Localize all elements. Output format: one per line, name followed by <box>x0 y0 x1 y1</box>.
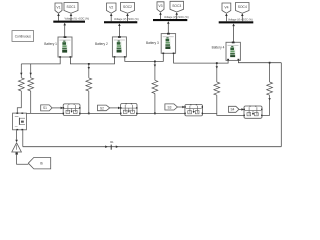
ground G1 <box>12 143 22 155</box>
switch block SW2 <box>120 103 137 116</box>
resistor R5 <box>214 82 220 95</box>
svg-text:V4: V4 <box>224 5 228 9</box>
svg-text:SOC4: SOC4 <box>238 5 247 9</box>
svg-text:V2: V2 <box>109 5 113 9</box>
svg-text:SOC2: SOC2 <box>123 5 132 9</box>
svg-text:Voltage (V) <SOC (%): Voltage (V) <SOC (%) <box>228 18 253 21</box>
powergui block Continuous <box>12 31 34 42</box>
arrow below R6 <box>268 98 270 101</box>
goto tag V1 <box>55 3 62 13</box>
svg-text:Battery 2: Battery 2 <box>95 42 108 46</box>
bus selector 4 <box>219 21 254 23</box>
wire bus1 to tag SOC1 <box>70 13 73 20</box>
wire R3 to switch rail <box>88 91 90 113</box>
wire rail battery2 minus to battery3 plus <box>125 54 164 61</box>
wire branch R5 <box>216 63 218 82</box>
goto tag SOC2 <box>121 3 135 14</box>
battery B3 <box>161 33 175 54</box>
wire battery3 m to bus3 <box>167 21 170 33</box>
wire U1 right port to bottom rail <box>22 130 24 146</box>
from tag S4 <box>229 106 240 112</box>
wire S3 to SW3 <box>177 106 185 109</box>
goto tag SOC1 <box>64 3 78 14</box>
svg-text:Voltage (V) <SOC (%): Voltage (V) <SOC (%) <box>65 18 90 21</box>
wire bus2 to tag SOC2 <box>126 13 129 21</box>
bus selector 1 <box>53 21 85 23</box>
switch block SW3 <box>184 104 203 116</box>
svg-text:Ib1: Ib1 <box>110 140 114 144</box>
wire U1 to ground <box>15 130 18 142</box>
arrow bottom rail left of CM1 <box>105 145 108 148</box>
battery B2 <box>112 36 126 58</box>
wire bottom return rail <box>23 146 282 148</box>
battery B1 <box>58 36 72 58</box>
wire R1 to block U1 <box>17 91 21 113</box>
goto tag SOC3 <box>170 1 184 12</box>
wire switch rail SW4 to branch R6 <box>262 115 270 117</box>
svg-text:V1: V1 <box>56 5 60 9</box>
arrow bottom rail right of CM1 <box>116 145 119 148</box>
wire bus1 to tag V1 <box>57 13 60 20</box>
wire rail battery1 minus to battery2 plus <box>70 58 114 64</box>
wire battery1 m to bus1 <box>63 23 66 37</box>
svg-text:Ib: Ib <box>40 162 43 166</box>
resistor R2 <box>28 78 34 91</box>
svg-text:SOC3: SOC3 <box>172 4 181 8</box>
wire S2 to SW2 <box>110 107 121 110</box>
resistor R1 <box>18 78 24 91</box>
battery B4 <box>226 42 240 61</box>
goto tag SOC4 <box>236 3 250 14</box>
svg-text:Continuous: Continuous <box>15 35 32 39</box>
resistor R4 <box>152 80 158 93</box>
goto tag V4 <box>222 3 231 13</box>
arrow branch R3 <box>88 67 90 70</box>
svg-text:S1: S1 <box>43 106 47 110</box>
wire R2 to switch rail <box>30 91 32 113</box>
wire S4 to SW4 <box>239 108 244 111</box>
from tag S1 <box>41 105 52 111</box>
junction R3 top <box>88 63 90 65</box>
svg-text:SOC1: SOC1 <box>67 5 76 9</box>
wire switch rail SW2 to SW3 <box>137 112 185 114</box>
arrow above R2 <box>30 73 32 76</box>
svg-text:S3: S3 <box>168 105 172 109</box>
bus selector 2 <box>104 21 137 23</box>
wire switch rail left <box>26 112 63 114</box>
junction R3 bottom <box>88 113 90 115</box>
bus selector 3 <box>153 19 187 21</box>
svg-text:Voltage (V) <SOC (%): Voltage (V) <SOC (%) <box>114 18 139 21</box>
svg-text:Battery 4: Battery 4 <box>212 46 225 50</box>
goto tag Ib <box>28 158 50 169</box>
wire rail battery3 minus to battery4 plus <box>174 54 229 63</box>
from tag S3 <box>165 104 178 110</box>
junction R4 top <box>154 61 156 63</box>
wire battery2 m to bus2 <box>118 23 121 37</box>
svg-text:S2: S2 <box>100 106 104 110</box>
junction R6 top <box>269 62 271 64</box>
wire branch R1 <box>20 64 22 78</box>
wire bus2 to tag V2 <box>110 13 113 21</box>
wire ground to tag Ib <box>17 155 29 165</box>
svg-text:Voltage (V) <SOC (%): Voltage (V) <SOC (%) <box>164 16 189 19</box>
wire bus4 to tag SOC4 <box>241 13 244 21</box>
svg-text:Battery 1: Battery 1 <box>44 42 57 46</box>
wire R4 to switch rail <box>154 94 156 114</box>
wire rail battery1 plus to left end <box>21 58 60 64</box>
arrow branch R4 <box>154 65 156 68</box>
svg-text:S4: S4 <box>231 108 235 112</box>
switch block SW1 <box>63 104 81 116</box>
junction R4 bottom <box>154 113 156 115</box>
from tag S2 <box>98 105 110 111</box>
svg-text:Battery 3: Battery 3 <box>146 41 159 45</box>
wire switch rail SW3 to SW4 <box>203 113 245 115</box>
wire bus3 to tag SOC3 <box>175 12 178 19</box>
wire S1 to SW1 <box>52 107 63 110</box>
svg-text:V3: V3 <box>158 4 162 8</box>
arrow above R1 <box>20 73 22 76</box>
wire R6 to switch rail <box>269 95 271 115</box>
wire branch R3 <box>88 64 90 78</box>
wire bus3 to tag V3 <box>159 12 162 19</box>
wire R5 to switch rail <box>216 95 218 113</box>
arrow branch R5 <box>216 66 218 69</box>
wire bus4 to tag V4 <box>225 13 228 21</box>
wire right edge <box>280 63 282 147</box>
resistor R3 <box>86 78 92 91</box>
wire branch R2 <box>30 64 32 78</box>
wire rail battery4 minus to right edge <box>238 60 281 62</box>
junction R5 top <box>216 62 218 64</box>
wire branch R4 <box>154 61 156 80</box>
goto tag V3 <box>157 2 164 12</box>
breaker block U1 <box>13 113 27 131</box>
switch block SW4 <box>244 106 263 119</box>
resistor R6 <box>267 82 273 95</box>
wire branch R6 <box>269 63 271 82</box>
current measurement CM1 <box>110 145 112 150</box>
goto tag V2 <box>107 3 117 13</box>
wire battery4 m to bus4 <box>232 24 235 43</box>
wire switch rail SW1 to SW2 <box>80 112 121 114</box>
